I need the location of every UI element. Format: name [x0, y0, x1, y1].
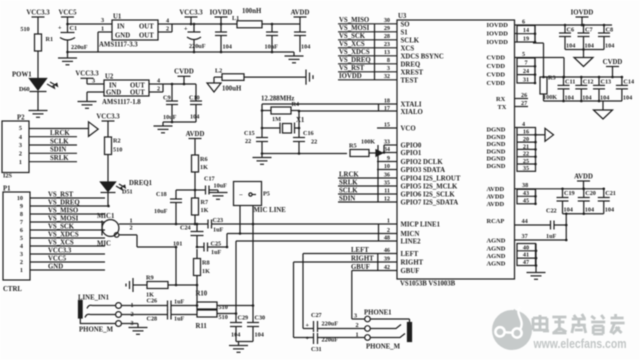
svg-text:104: 104	[566, 43, 575, 50]
wire RIGHT out	[294, 262, 314, 338]
wire R11 to LINE2 riser	[217, 312, 237, 315]
svg-text:6: 6	[522, 19, 525, 26]
U2 output pins 4,2	[149, 78, 163, 93]
svg-text:VS_RST: VS_RST	[339, 65, 365, 72]
svg-text:C7: C7	[585, 27, 593, 34]
arrow into GPIO1	[376, 150, 397, 156]
svg-text:LINE2: LINE2	[401, 239, 422, 246]
PHONE1 jack contacts	[370, 319, 411, 342]
svg-text:12: 12	[384, 195, 390, 202]
svg-text:1: 1	[387, 217, 390, 224]
svg-text:3: 3	[19, 142, 22, 149]
resistor R1 510	[20, 26, 53, 51]
capacitor C24 101	[173, 223, 204, 249]
U3 pin 46 LEFT wire	[303, 247, 419, 258]
svg-text:GPIO6 I2S_SCLK: GPIO6 I2S_SCLK	[401, 192, 456, 199]
svg-text:510: 510	[219, 314, 228, 321]
U3 label DGND 6	[487, 163, 506, 170]
power flag VCC3.3 (rail)	[179, 9, 203, 25]
P5 pin drops	[239, 206, 253, 235]
svg-text:3: 3	[92, 78, 95, 85]
svg-text:U2: U2	[105, 74, 114, 81]
power flag VCC3.3 (top-left)	[26, 9, 50, 34]
U3 label DGND 2	[487, 134, 506, 141]
svg-text:MIC LINE: MIC LINE	[254, 207, 287, 214]
svg-text:27: 27	[521, 100, 527, 107]
U3 label CVDD 1	[487, 55, 506, 62]
svg-text:C31: C31	[311, 346, 322, 353]
P1 pin 2 wire VCC5	[20, 255, 105, 266]
svg-text:R10: R10	[196, 291, 208, 298]
svg-text:VS_DREQ: VS_DREQ	[48, 199, 80, 206]
svg-text:104: 104	[255, 332, 264, 339]
svg-text:SO: SO	[401, 21, 410, 28]
wire decoupling bottom rail	[68, 51, 295, 54]
inductor L2 100uH	[215, 68, 244, 93]
svg-text:C24: C24	[180, 225, 191, 232]
wire R1 to D60	[37, 51, 39, 79]
svg-text:31: 31	[523, 77, 529, 84]
svg-text:LEFT: LEFT	[401, 251, 419, 258]
wire R2 to D51	[107, 155, 109, 183]
svg-text:XTALI: XTALI	[401, 102, 422, 109]
svg-text:C10: C10	[189, 95, 200, 102]
svg-text:11: 11	[384, 187, 390, 194]
svg-text:3: 3	[101, 17, 104, 24]
svg-text:104: 104	[223, 44, 232, 51]
svg-text:4: 4	[19, 134, 22, 141]
U3 pin 29 S1 wire VS_MOSI	[338, 25, 408, 36]
wire MICN (to chip pin2)	[226, 234, 397, 249]
U3 label AVDD 2	[487, 194, 505, 201]
svg-text:IOVDD: IOVDD	[339, 73, 362, 80]
svg-text:GND: GND	[115, 33, 130, 40]
U3 label AGND 2	[487, 246, 506, 253]
pin number 1 (U1)	[101, 26, 104, 33]
P2 pin 5	[19, 125, 22, 132]
ground under D60	[29, 111, 48, 118]
svg-text:29: 29	[384, 25, 390, 32]
svg-text:10: 10	[17, 195, 23, 202]
svg-text:DGND: DGND	[487, 148, 506, 155]
P1 pin 6 wire VS_SCK	[20, 223, 105, 234]
wire SRLK (P2)	[29, 155, 77, 162]
wire crystal ground rail	[261, 152, 347, 155]
svg-text:46: 46	[384, 247, 390, 254]
ground (IOVDD bank)	[574, 58, 593, 67]
svg-text:104: 104	[585, 43, 594, 50]
pin box 7,24,31	[517, 58, 536, 85]
U3 AVDD pin 38	[515, 182, 536, 189]
P1 pin 8 wire VS_MISO	[20, 207, 105, 218]
power flag VCC3.3 (R2)	[96, 113, 120, 137]
svg-text:VCC3.3: VCC3.3	[48, 247, 72, 254]
svg-text:VS_MISO: VS_MISO	[48, 207, 78, 214]
svg-text:AVDD: AVDD	[487, 186, 505, 193]
svg-text:AVDD: AVDD	[186, 131, 205, 138]
U3 pin 11 GPIO6 I2S_SCLK	[338, 187, 455, 198]
svg-text:48: 48	[384, 234, 390, 241]
capacitor C12 104	[575, 76, 593, 102]
capacitor C28 1uF (series)	[90, 310, 197, 323]
crystal X1	[261, 117, 305, 134]
svg-text:C6: C6	[567, 27, 575, 34]
mic jack P5	[234, 182, 270, 206]
svg-text:16: 16	[523, 129, 529, 136]
pin number ladder (U3 GPIO)	[377, 145, 379, 202]
resistor R4 1M	[262, 101, 299, 123]
svg-text:100K: 100K	[361, 139, 375, 146]
svg-text:4: 4	[166, 18, 169, 25]
svg-text:28: 28	[384, 33, 390, 40]
svg-text:14: 14	[523, 27, 529, 34]
svg-text:L1: L1	[232, 15, 239, 22]
label CTRL	[3, 286, 22, 293]
U3 label CVDD 2	[487, 63, 506, 70]
svg-text:220uF: 220uF	[189, 43, 206, 50]
capacitor C8 104	[598, 24, 614, 50]
svg-text:104: 104	[605, 43, 614, 50]
U3 pin 27 TX	[498, 100, 529, 111]
capacitor C17 10uF	[195, 176, 227, 195]
svg-text:R5: R5	[349, 143, 357, 150]
svg-text:510: 510	[113, 147, 122, 154]
svg-text:PHONE_M: PHONE_M	[366, 344, 401, 351]
svg-text:CVDD: CVDD	[487, 63, 506, 70]
svg-text:104: 104	[301, 44, 310, 51]
connector P1	[3, 186, 30, 281]
wire D51 to VS_DREQ	[107, 193, 110, 208]
wire mic- down to bias node	[119, 235, 176, 247]
svg-text:40: 40	[523, 244, 529, 251]
ground under LINE_IN1	[121, 324, 147, 335]
svg-text:AVDD: AVDD	[291, 9, 310, 16]
svg-text:OUT: OUT	[139, 33, 154, 40]
U3 label AGND 3	[487, 253, 506, 260]
wire SCLK (P2)	[29, 138, 77, 145]
connector PHONE1	[354, 310, 401, 351]
pin number ladder (LEFT RIGHT GBUF)	[377, 254, 379, 271]
svg-text:1: 1	[20, 267, 23, 274]
svg-text:SCLK: SCLK	[401, 37, 420, 44]
svg-text:C23: C23	[213, 217, 224, 224]
svg-text:1uF: 1uF	[174, 299, 185, 306]
svg-text:2: 2	[356, 322, 359, 329]
svg-text:XREST: XREST	[401, 69, 424, 76]
watermark text www.elecfans.com	[533, 337, 627, 351]
svg-text:S1: S1	[401, 29, 409, 36]
U3 pin 33 GPIO0	[384, 138, 422, 149]
svg-text:220uF: 220uF	[322, 337, 339, 344]
wire C24-R9 link	[175, 246, 178, 285]
resistor R8 1K	[194, 249, 211, 286]
svg-text:AVDD: AVDD	[574, 173, 593, 180]
svg-text:GBUF: GBUF	[401, 268, 420, 275]
U3 label DGND 1	[487, 127, 506, 134]
svg-text:10: 10	[384, 163, 390, 170]
ground under C29 C30	[229, 342, 248, 353]
svg-text:C11: C11	[565, 79, 575, 86]
power flag IOVDD (rail)	[210, 9, 233, 25]
svg-text:VS_SCK: VS_SCK	[339, 33, 366, 40]
wire LEFT out	[303, 254, 314, 329]
svg-text:17: 17	[384, 105, 390, 112]
capacitor C5 104	[294, 24, 310, 52]
buffer symbol (DGND)	[536, 128, 554, 141]
svg-text:35: 35	[523, 165, 529, 172]
svg-text:37: 37	[522, 233, 528, 240]
svg-text:2: 2	[19, 151, 22, 158]
capacitor C19 104	[557, 188, 575, 214]
U3 pin 10 GPIO3 SDATA	[377, 163, 445, 174]
svg-text:22: 22	[523, 151, 529, 158]
svg-text:13: 13	[384, 49, 390, 56]
svg-text:L2: L2	[215, 68, 222, 75]
svg-text:R6: R6	[200, 156, 208, 163]
svg-text:104: 104	[585, 207, 594, 214]
pin number 3 (U1)	[101, 17, 104, 24]
svg-text:SRLK: SRLK	[50, 155, 69, 162]
svg-text:AGND: AGND	[487, 253, 506, 260]
wire RCAP riser	[565, 212, 568, 240]
label MIC LINE	[254, 207, 287, 214]
svg-text:U3: U3	[398, 13, 407, 20]
svg-text:SCLK: SCLK	[339, 187, 358, 194]
svg-text:1uF: 1uF	[213, 227, 224, 234]
svg-text:25: 25	[523, 158, 529, 165]
wire SDIN (P2)	[29, 147, 77, 154]
wire CVDD feed	[533, 43, 564, 77]
svg-text:36: 36	[384, 171, 390, 178]
svg-text:TEST: TEST	[401, 77, 419, 84]
svg-text:GPIO3 SDATA: GPIO3 SDATA	[401, 167, 446, 174]
svg-text:I2S: I2S	[3, 173, 13, 180]
U3 pin 32 TEST wire IOVDD	[338, 73, 418, 84]
wire MICP (mic+ to chip pin1)	[119, 223, 397, 226]
svg-text:22: 22	[311, 139, 317, 146]
svg-text:IOVDD: IOVDD	[487, 22, 509, 29]
LED D60 POW1	[12, 72, 57, 94]
capacitor C25 1uF (series)	[197, 241, 227, 257]
svg-text:100uH: 100uH	[222, 86, 242, 93]
wire LRCK (P2)	[29, 130, 77, 137]
power flag AVDD (bank)	[574, 173, 593, 190]
svg-text:1K: 1K	[200, 164, 208, 171]
svg-text:1: 1	[356, 332, 359, 339]
svg-text:VCC3.3: VCC3.3	[96, 113, 120, 120]
U3 label CVDD 4	[487, 80, 506, 87]
capacitor C30 104	[247, 306, 265, 342]
svg-text:C1: C1	[70, 25, 78, 32]
svg-text:2: 2	[387, 227, 390, 234]
svg-text:104: 104	[564, 207, 573, 214]
svg-text:18: 18	[384, 98, 390, 105]
U3 pin 2 MICN	[387, 227, 420, 238]
svg-text:VCC5: VCC5	[48, 255, 67, 262]
svg-text:C9: C9	[163, 95, 171, 102]
svg-text:XIALO: XIALO	[401, 109, 423, 116]
P1 pin 1 wire GND	[20, 263, 105, 274]
svg-text:+: +	[58, 25, 62, 32]
svg-text:XDCS BSYNC: XDCS BSYNC	[401, 53, 444, 60]
capacitor C23 1uF (series)	[208, 217, 224, 234]
wire GPIO0 stub	[383, 145, 397, 154]
svg-text:R4: R4	[292, 101, 300, 108]
svg-text:20: 20	[523, 136, 529, 143]
pin box 16,20,21,22,25,35	[517, 128, 537, 173]
svg-text:C22: C22	[546, 208, 557, 215]
svg-text:GPIO1: GPIO1	[401, 150, 422, 157]
svg-text:1K: 1K	[201, 207, 209, 214]
capacitor C27 220uF (series)	[306, 312, 365, 332]
svg-text:X1: X1	[296, 117, 305, 124]
wire R7 to mic node	[194, 215, 197, 225]
svg-text:104: 104	[623, 95, 632, 102]
svg-text:CTRL: CTRL	[3, 286, 22, 293]
svg-text:XCS: XCS	[401, 45, 415, 52]
svg-text:21: 21	[523, 143, 529, 150]
svg-text:VS1053B VS1003B: VS1053B VS1003B	[400, 281, 456, 288]
svg-text:2: 2	[157, 86, 160, 93]
svg-text:IOVDD: IOVDD	[487, 39, 509, 46]
capacitor C29 104	[230, 314, 248, 342]
wire LINE2 to chip pin48	[236, 241, 397, 314]
U3 label DGND 3	[487, 141, 506, 148]
svg-text:IOVDD: IOVDD	[571, 9, 594, 16]
U3 pin 23 XCS wire VS_XCS	[338, 41, 414, 52]
P1 pin 10 wire VS_RST	[17, 191, 105, 202]
svg-text:D51: D51	[122, 189, 133, 196]
P1 pin 5 wire VS_XDCS	[20, 231, 105, 242]
U3 pin 26 RX	[496, 92, 528, 103]
svg-text:5: 5	[19, 125, 22, 132]
svg-text:−: −	[239, 192, 243, 199]
LINE_IN1 contacts	[116, 302, 134, 327]
svg-text:R11: R11	[196, 323, 208, 330]
svg-text:VCC3.3: VCC3.3	[26, 9, 50, 16]
label I2S	[3, 173, 13, 180]
svg-text:9: 9	[387, 155, 390, 162]
P1 pin 9 wire VS_DREQ	[20, 199, 109, 210]
U3 pin 8 DREQ wire VS_DREQ	[338, 57, 420, 68]
U1 output pins 4,2	[158, 18, 172, 33]
resistor R10 510	[196, 291, 228, 312]
svg-text:10uF: 10uF	[163, 114, 177, 121]
svg-text:1uF: 1uF	[174, 316, 185, 323]
svg-text:LEFT: LEFT	[351, 247, 369, 254]
wire 3.3V rail	[172, 23, 300, 25]
svg-text:34: 34	[384, 146, 390, 153]
svg-text:VS_MOSI: VS_MOSI	[48, 215, 79, 222]
U3 pin 28 SCLK wire VS_SCK	[338, 33, 420, 44]
capacitor C3 104	[215, 24, 232, 52]
U3 pin 35 GPIO5 I2S_MCLK	[338, 179, 458, 190]
svg-text:C29: C29	[238, 315, 249, 322]
U3 label IOVDD 3	[487, 39, 509, 46]
svg-text:GPIO0: GPIO0	[401, 143, 422, 150]
U3 pin 15 VCO	[377, 121, 416, 132]
regulator U1 AMS1117-3.3	[99, 14, 158, 49]
svg-text:SDIN: SDIN	[50, 147, 66, 154]
U3 pin 3 XREST wire VS_RST	[338, 65, 424, 76]
svg-text:RIGHT: RIGHT	[351, 256, 374, 263]
wire IOVDD bank bottom	[565, 48, 604, 57]
svg-text:104: 104	[231, 332, 240, 339]
wire D60 to ground	[37, 92, 39, 111]
svg-text:RIGHT: RIGHT	[401, 260, 424, 267]
svg-text:39: 39	[384, 256, 390, 263]
svg-text:C27: C27	[311, 312, 322, 319]
wire L2 left + arrow symbol	[207, 77, 222, 92]
svg-text:19: 19	[523, 36, 529, 43]
U3 CVDD pins 5,7,24,31	[515, 51, 534, 58]
svg-text:C26: C26	[147, 298, 158, 305]
svg-text:30: 30	[384, 17, 390, 24]
resistor R5 100K	[349, 139, 376, 157]
svg-text:4: 4	[157, 78, 160, 85]
svg-text:10nF: 10nF	[265, 44, 279, 51]
svg-text:AVDD: AVDD	[487, 194, 505, 201]
svg-text:32: 32	[384, 73, 390, 80]
U3 pin 48 LINE2	[384, 234, 421, 245]
svg-text:SRLK: SRLK	[339, 179, 358, 186]
svg-text:10uF: 10uF	[154, 208, 168, 215]
pin number ladder (MICP MICN LINE2)	[378, 224, 380, 241]
svg-text:OUT: OUT	[130, 83, 145, 90]
capacitor C7 104	[578, 24, 594, 50]
capacitor C26 1uF (series)	[92, 298, 197, 311]
label VS1053B VS1003B	[400, 281, 456, 288]
svg-text:CVDD: CVDD	[174, 69, 194, 76]
ground (rail decoupling)	[285, 52, 304, 63]
svg-text:45: 45	[523, 197, 529, 204]
svg-text:DGND: DGND	[487, 127, 506, 134]
svg-text:CVDD: CVDD	[487, 72, 506, 79]
svg-text:MICP LINE1: MICP LINE1	[401, 222, 441, 229]
svg-text:GPIO5 I2S_MCLK: GPIO5 I2S_MCLK	[401, 184, 459, 191]
svg-text:P5: P5	[263, 191, 270, 198]
ground (crystal)	[253, 154, 272, 165]
svg-text:POW1: POW1	[12, 72, 32, 79]
svg-text:IN: IN	[109, 83, 117, 90]
svg-text:1uF: 1uF	[546, 233, 557, 240]
svg-text:SCLK: SCLK	[50, 138, 69, 145]
svg-text:C17: C17	[204, 176, 215, 183]
P2 pin 4	[19, 134, 22, 141]
pin number 3 (U2)	[92, 78, 95, 85]
resistor R9 1K	[146, 275, 197, 299]
svg-text:C14: C14	[623, 79, 634, 86]
wire C9 C10 bottom	[163, 121, 196, 124]
svg-text:4: 4	[20, 243, 23, 250]
wire R6 to R7	[194, 172, 197, 198]
op-amp U3 VS1053B body	[397, 13, 515, 279]
capacitor C21 104	[598, 188, 616, 214]
svg-text:+: +	[184, 26, 188, 33]
svg-text:R3: R3	[548, 75, 556, 82]
svg-text:26: 26	[521, 92, 527, 99]
pin box 14,19	[517, 25, 536, 43]
svg-text:5: 5	[20, 235, 23, 242]
svg-text:C28: C28	[147, 316, 158, 323]
svg-text:VCC3.3: VCC3.3	[179, 9, 203, 16]
svg-text:P1: P1	[3, 186, 11, 193]
wire R8 node down to R10	[196, 285, 199, 307]
wire CVDD bank rail	[542, 76, 622, 79]
svg-text:R1: R1	[46, 36, 54, 43]
U3 DGND pin 4	[515, 121, 526, 128]
svg-text:2: 2	[166, 26, 169, 33]
